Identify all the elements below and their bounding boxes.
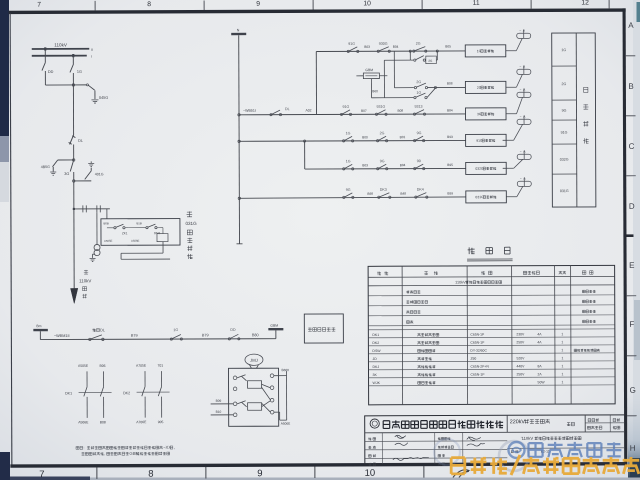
JMJ external wires left: [211, 403, 234, 405]
contact 1G: [170, 338, 172, 340]
frame bottom thick line: [10, 462, 627, 468]
handwritten check mark bottom right: [453, 470, 469, 478]
contact DD: [228, 338, 230, 340]
svg-text:1: 1: [561, 364, 563, 368]
wire CT to PT branch: [96, 212, 98, 244]
title block small labels: [368, 437, 375, 440]
svg-text:250V: 250V: [517, 372, 526, 376]
svg-text:B04: B04: [393, 45, 399, 49]
equipment table columns: [401, 266, 404, 404]
svg-text:Z90: Z90: [470, 357, 476, 361]
svg-text:DSW: DSW: [372, 349, 381, 353]
svg-text:401G: 401G: [95, 172, 104, 176]
svg-text:50W: 50W: [538, 380, 546, 384]
svg-text:F: F: [629, 320, 634, 329]
branch2 lamp: [506, 86, 516, 88]
drawing number cells: [511, 450, 518, 453]
svg-text:250V: 250V: [516, 340, 525, 344]
branch6 wire: [239, 197, 466, 198]
contact DL feeder: [270, 114, 272, 116]
earthing switch 045G: [73, 84, 86, 86]
svg-text:Bm: Bm: [36, 324, 41, 328]
frame right thick line: [623, 8, 628, 465]
svg-text:A: A: [628, 21, 634, 30]
svg-text:D: D: [629, 202, 635, 211]
svg-text:10: 10: [365, 468, 376, 479]
svg-text:B0B: B0B: [103, 221, 108, 225]
svg-text:9G: 9G: [417, 131, 422, 135]
line terminal box (to 031G): [101, 219, 180, 246]
photo dark edge bottom-left: [0, 452, 10, 480]
wire bus to breaker: [72, 85, 74, 135]
branch4 lamp: [503, 139, 514, 141]
svg-text:2G: 2G: [380, 131, 385, 135]
svg-text:B09: B09: [216, 399, 222, 403]
interlock table frame: [552, 33, 596, 207]
interlock table row lines: [552, 65, 576, 67]
svg-text:1: 1: [561, 356, 563, 360]
svg-text:~: ~: [520, 149, 522, 153]
parallel loop lower b1: [409, 51, 411, 60]
svg-text:B84: B84: [447, 108, 453, 112]
svg-text:1: 1: [562, 380, 564, 384]
svg-text:B98: B98: [367, 192, 373, 196]
disconnector DD: [44, 50, 46, 63]
svg-text:B80: B80: [252, 333, 259, 337]
svg-text:B48: B48: [400, 192, 406, 196]
svg-text:B01: B01: [400, 135, 406, 139]
interlock table vertical title: [584, 87, 588, 92]
branch1 lamp: [506, 50, 516, 52]
contact 1G b5: [343, 168, 345, 170]
svg-text:DL: DL: [78, 139, 83, 143]
svg-text:B04: B04: [400, 163, 406, 167]
earthing switch 401G: [88, 162, 94, 164]
right margin ticks: [626, 55, 635, 57]
svg-text:JMJ: JMJ: [250, 358, 258, 363]
svg-text:DK2: DK2: [372, 341, 379, 345]
svg-text:~: ~: [519, 64, 521, 68]
faint logo ghost circle: [499, 441, 529, 471]
svg-text:2G: 2G: [428, 59, 433, 63]
svg-text:B95: B95: [447, 163, 453, 167]
JMJ contacts and coils: [237, 375, 246, 378]
svg-text:B06: B06: [99, 364, 105, 368]
svg-text:DK2: DK2: [123, 391, 130, 395]
blue watermark text zongheng: [529, 443, 543, 457]
frame left line: [10, 13, 12, 466]
svg-text:031G: 031G: [475, 195, 484, 199]
earthing switch 4B5G: [58, 159, 74, 161]
branch6 interlock box: [466, 191, 507, 203]
busbar I: [32, 55, 87, 57]
svg-text:9: 9: [256, 1, 260, 8]
svg-text:A506E: A506E: [281, 422, 291, 426]
svg-text:B10: B10: [216, 410, 222, 414]
middle control wire: [40, 338, 275, 341]
svg-text:1G: 1G: [173, 328, 178, 332]
svg-text:110kV: 110kV: [455, 280, 466, 284]
svg-text:4B5G: 4B5G: [41, 165, 50, 169]
faint stamp circle: [434, 439, 460, 465]
label to 110kV cable: [84, 270, 88, 274]
svg-text:A505E: A505E: [78, 364, 89, 368]
svg-text:DD: DD: [48, 70, 54, 74]
svg-text:1: 1: [561, 340, 563, 344]
svg-text:032G: 032G: [560, 158, 569, 162]
JMJ left terminals: [233, 376, 237, 380]
contact 91G b3: [340, 113, 342, 115]
JMJ right terminals: [270, 374, 274, 378]
svg-text:DK1: DK1: [372, 333, 379, 337]
svg-text:B08: B08: [100, 420, 106, 424]
JMJ cross wiring: [262, 384, 271, 388]
svg-text:~WB51I: ~WB51I: [243, 109, 256, 113]
svg-text:9G: 9G: [346, 188, 351, 192]
svg-text::: :: [83, 445, 84, 450]
branch2 lower path: [371, 97, 413, 99]
svg-text:7: 7: [37, 2, 41, 9]
svg-text:2G: 2G: [416, 80, 421, 84]
svg-text:B08: B08: [397, 109, 403, 113]
svg-text:110kV: 110kV: [54, 42, 68, 47]
svg-text:DD: DD: [230, 328, 236, 332]
svg-text:9G: 9G: [380, 159, 385, 163]
svg-text:A706E: A706E: [136, 420, 147, 424]
svg-text:1G: 1G: [77, 70, 82, 74]
svg-text:DY-32/60C: DY-32/60C: [470, 349, 487, 353]
branch5 lamp: [503, 167, 514, 169]
svg-text:3K: 3K: [373, 373, 378, 377]
svg-text:031G: 031G: [185, 221, 197, 226]
svg-text:2G: 2G: [561, 82, 566, 86]
svg-text:WJK: WJK: [373, 381, 381, 385]
wires below terminal box: [162, 242, 164, 253]
svg-text:91G: 91G: [342, 105, 349, 109]
gap row line: [368, 328, 614, 331]
title block grid: [365, 440, 507, 443]
svg-text:B60: B60: [372, 89, 378, 93]
svg-text:9G: 9G: [562, 109, 567, 113]
svg-text:1: 1: [562, 372, 564, 376]
svg-text:DK1: DK1: [65, 391, 72, 395]
svg-text:220kV: 220kV: [510, 419, 526, 425]
svg-text:N: N: [237, 28, 240, 32]
svg-text:440V: 440V: [516, 364, 525, 368]
contact 91G b1: [347, 50, 349, 52]
svg-text:931G: 931G: [376, 105, 385, 109]
svg-text:10: 10: [363, 0, 371, 7]
svg-text:905: 905: [158, 420, 164, 424]
riser to branch1: [315, 52, 317, 115]
branch3 lamp: [506, 113, 516, 115]
svg-text:,: ,: [104, 451, 105, 456]
svg-text:9: 9: [257, 468, 262, 479]
contact 1G b4: [343, 140, 345, 142]
svg-text:8: 8: [148, 469, 153, 480]
terminal rows: [368, 294, 614, 297]
bus junction marks: [44, 47, 46, 50]
svg-text:90: 90: [417, 159, 421, 163]
wire breaker to node: [73, 144, 75, 159]
circuit breaker DL: [70, 135, 74, 145]
svg-text:9313: 9313: [414, 105, 422, 109]
svg-text:DK3: DK3: [380, 188, 387, 192]
svg-text:~: ~: [520, 87, 522, 91]
svg-text:1G: 1G: [346, 131, 351, 135]
svg-text:B99: B99: [447, 191, 453, 195]
svg-text:GBM: GBM: [365, 68, 373, 72]
svg-text:12: 12: [581, 0, 589, 6]
svg-text:C65N-1P: C65N-1P: [470, 333, 485, 337]
branch5 wire: [305, 167, 466, 170]
bottom margin ticks: [96, 467, 98, 478]
svg-text:H: H: [630, 444, 636, 453]
top margin ticks: [94, 1, 96, 10]
svg-text:I: I: [91, 55, 92, 59]
disconnector 3G: [70, 160, 74, 172]
PT ground: [92, 254, 94, 258]
contact 2G b4: [377, 140, 379, 142]
svg-text:C: C: [629, 142, 635, 151]
svg-text:A506E: A506E: [131, 239, 140, 243]
svg-text:B600: B600: [281, 368, 289, 372]
contact 9313 b3: [413, 113, 415, 115]
svg-text:DKJ: DKJ: [372, 365, 379, 369]
svg-text:3G: 3G: [64, 172, 69, 176]
relay JMJ designator: [245, 354, 263, 365]
branch3 interlock box: [465, 108, 506, 120]
svg-text:91G: 91G: [561, 131, 568, 135]
wire into terminal box: [106, 209, 108, 219]
svg-text:2G: 2G: [416, 42, 421, 46]
branch4 wire: [239, 139, 465, 142]
photo dark edge top-left: [0, 0, 9, 136]
svg-text:B00: B00: [362, 135, 368, 139]
equipment table title: [468, 247, 475, 254]
title block right cells: [585, 422, 624, 424]
terminal box coil: [157, 234, 168, 242]
svg-text:110kV: 110kV: [79, 278, 91, 283]
svg-text:II: II: [91, 48, 93, 52]
svg-text:1: 1: [561, 348, 563, 352]
equipment table header: [368, 275, 614, 278]
blue watermark logo circle: [509, 442, 525, 458]
svg-text:045G: 045G: [99, 96, 108, 100]
svg-text:B93: B93: [447, 135, 453, 139]
svg-text:A505E: A505E: [104, 239, 113, 243]
current transformers: [74, 208, 110, 210]
svg-text:B79: B79: [131, 334, 138, 338]
svg-text:91G: 91G: [348, 42, 355, 46]
svg-text:520V: 520V: [516, 356, 525, 360]
svg-text:230V: 230V: [516, 332, 525, 336]
svg-text:B: B: [628, 82, 633, 91]
frame top thick line: [9, 8, 626, 14]
svg-text:~: ~: [520, 114, 522, 118]
disconnector 1G: [72, 57, 74, 65]
svg-text:DK4: DK4: [417, 188, 424, 192]
svg-text:GBM: GBM: [270, 324, 278, 328]
svg-text:A02: A02: [305, 109, 311, 113]
svg-text:,: ,: [174, 445, 175, 450]
svg-text:701: 701: [157, 364, 163, 368]
branch1 wire: [316, 50, 465, 53]
svg-text:7: 7: [39, 469, 44, 480]
wire join DD-1G: [45, 84, 73, 86]
contact DK3 b6: [378, 196, 380, 198]
branch5 interlock box: [466, 162, 507, 174]
yellow watermark slash: [511, 455, 520, 475]
svg-text:'110kV: '110kV: [521, 436, 534, 441]
equipment table frame: [368, 265, 615, 404]
JMJ external wires right: [274, 375, 287, 377]
svg-text:032G: 032G: [475, 167, 484, 171]
svg-text:JD: JD: [372, 357, 377, 361]
equipment table subheader: [368, 284, 614, 287]
branch2 upper path: [394, 87, 413, 89]
svg-text:1G: 1G: [561, 48, 566, 52]
institute name bold: [383, 420, 503, 428]
feeder vertical wire: [238, 35, 241, 244]
svg-text:C65N-2P+N: C65N-2P+N: [470, 365, 489, 369]
parallel contact 2G upper b1: [409, 50, 411, 52]
relay JMJ box: [228, 368, 278, 426]
svg-text:1G: 1G: [346, 159, 351, 163]
wire to CT: [73, 181, 75, 209]
svg-text:B08: B08: [447, 81, 453, 85]
contact 90 b5: [414, 168, 416, 170]
institute logo: [370, 419, 379, 428]
voltage transformer PT: [94, 244, 100, 250]
title block frame: [365, 415, 625, 464]
contact 9G b6: [343, 196, 345, 198]
svg-text:C65N-1P: C65N-1P: [471, 373, 486, 377]
svg-text:8: 8: [147, 1, 151, 8]
page right edge strip: [633, 0, 640, 480]
svg-text:B07: B07: [361, 109, 367, 113]
b2 verticals from branch1: [383, 60, 385, 97]
handwritten signatures: [395, 435, 406, 438]
svg-text:B03: B03: [362, 163, 368, 167]
branch5 riser: [304, 141, 306, 169]
svg-text:DL: DL: [100, 328, 105, 332]
svg-text:ZK1: ZK1: [122, 231, 128, 235]
svg-text:11: 11: [473, 0, 480, 7]
yellow watermark text toutiao: [451, 458, 465, 474]
branch3 wire: [239, 113, 465, 116]
vertical label to 031G panel: [187, 211, 193, 217]
svg-text:B03: B03: [364, 45, 370, 49]
contact 930G b1: [377, 50, 379, 52]
svg-text:B05: B05: [445, 44, 451, 48]
branch2 to box: [435, 86, 465, 88]
svg-text:1: 1: [561, 332, 563, 336]
svg-text:1G: 1G: [416, 91, 421, 95]
page bottom edge strip: [0, 478, 640, 480]
contact 9G b4: [414, 140, 416, 142]
contact DK4 b6: [415, 196, 417, 198]
svg-text:930G: 930G: [379, 42, 388, 46]
title block row1 line: [365, 431, 625, 434]
feeder arrow down: [73, 209, 75, 289]
svg-text:~: ~: [520, 176, 522, 180]
svg-text:B1B: B1B: [136, 221, 141, 225]
branch4 interlock box: [466, 134, 507, 146]
svg-text:B79: B79: [202, 333, 209, 337]
svg-text:~: ~: [519, 28, 521, 32]
svg-text:A705E: A705E: [136, 364, 147, 368]
b2 drop from GBM: [370, 79, 372, 98]
busbar II: [32, 48, 90, 50]
svg-text:~WBM1II: ~WBM1II: [54, 334, 70, 338]
yellow watermark text quanqiu: [523, 457, 540, 474]
branch1 interlock box: [465, 45, 506, 57]
svg-text:DL: DL: [285, 107, 290, 111]
node below 3G: [73, 180, 75, 182]
svg-text:G: G: [630, 386, 636, 395]
box to interlock panel: [304, 314, 343, 343]
svg-text:A506E: A506E: [78, 420, 89, 424]
svg-text:E: E: [629, 261, 634, 270]
branch6 lamp: [506, 196, 516, 198]
contact 9G b5: [377, 168, 379, 170]
contact 931G b3: [375, 113, 377, 115]
device rows: [368, 336, 614, 339]
svg-text:031G: 031G: [560, 189, 569, 193]
svg-text:C65N-1P: C65N-1P: [470, 341, 485, 345]
